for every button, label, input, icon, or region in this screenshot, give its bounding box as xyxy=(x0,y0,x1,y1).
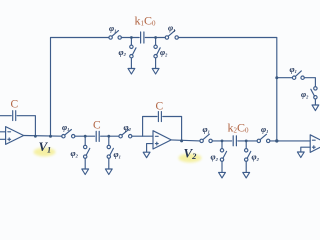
shunt switch phi2 at node B (x=155.6) xyxy=(154,38,160,69)
highlight V2 xyxy=(179,154,202,163)
shunt switch phi2 (x=222) xyxy=(220,141,226,172)
capacitor k2C0 xyxy=(233,136,236,146)
ground xyxy=(128,69,135,75)
op-amp U1 xyxy=(0,127,24,145)
switch phi1 (bottom row right) xyxy=(257,134,270,142)
switch S2 (top-right, phi1) xyxy=(165,31,178,40)
ground xyxy=(152,69,159,75)
svg-text:C: C xyxy=(156,101,164,113)
wire to vertical shunt xyxy=(304,78,315,87)
wire xyxy=(238,140,257,142)
ground xyxy=(143,152,150,158)
op-amp U3 xyxy=(310,135,320,153)
svg-text:C: C xyxy=(93,120,101,132)
shunt switch phi1 (x=108.8) xyxy=(107,136,113,169)
wire into U3 xyxy=(270,140,310,142)
wire V1 node up to top row xyxy=(51,38,110,137)
wire into U2 xyxy=(132,135,153,137)
ground xyxy=(312,105,319,111)
capacitor C (U2 feedback) xyxy=(143,112,182,141)
capacitor C (middle) xyxy=(96,131,99,141)
switch phi1 (bottom row left) xyxy=(200,134,212,142)
ground xyxy=(243,172,250,178)
wire U2 plus input to ground xyxy=(147,144,153,152)
wire xyxy=(121,37,139,39)
wire top row to right vertical xyxy=(178,38,276,141)
shunt switch phi2 (right chain) xyxy=(311,87,317,105)
switch phi2 (middle row right) xyxy=(119,130,132,138)
capacitor C (U1 feedback) xyxy=(0,111,35,137)
phi labels xyxy=(62,23,309,162)
wire right chain xyxy=(277,77,293,79)
shunt switch phi2 at node A (x=131.4) xyxy=(130,38,136,69)
wire U3 plus input to ground xyxy=(301,147,310,152)
capacitor k1C0 xyxy=(141,32,144,43)
wire xyxy=(145,37,165,39)
wire xyxy=(75,135,95,137)
shunt switch phi2 (x=85.2) xyxy=(84,136,90,169)
svg-text:C: C xyxy=(11,99,19,111)
ground xyxy=(297,152,304,158)
ground xyxy=(82,169,89,175)
highlight V1 xyxy=(34,148,56,157)
wire U1 output xyxy=(24,135,62,138)
ground xyxy=(105,169,112,175)
wire U2 output xyxy=(171,140,200,141)
switch S1 (top-left, phi1) xyxy=(109,31,122,40)
component value labels (orange) xyxy=(11,14,250,135)
switch phi1 (right chain) xyxy=(292,71,304,80)
op-amp U2 xyxy=(153,131,171,149)
switch phi1 (middle row left) xyxy=(62,130,75,138)
ground xyxy=(219,172,226,178)
wire xyxy=(212,140,232,142)
shunt switch phi2 (x=246.2) xyxy=(245,141,251,172)
wire xyxy=(101,135,119,137)
